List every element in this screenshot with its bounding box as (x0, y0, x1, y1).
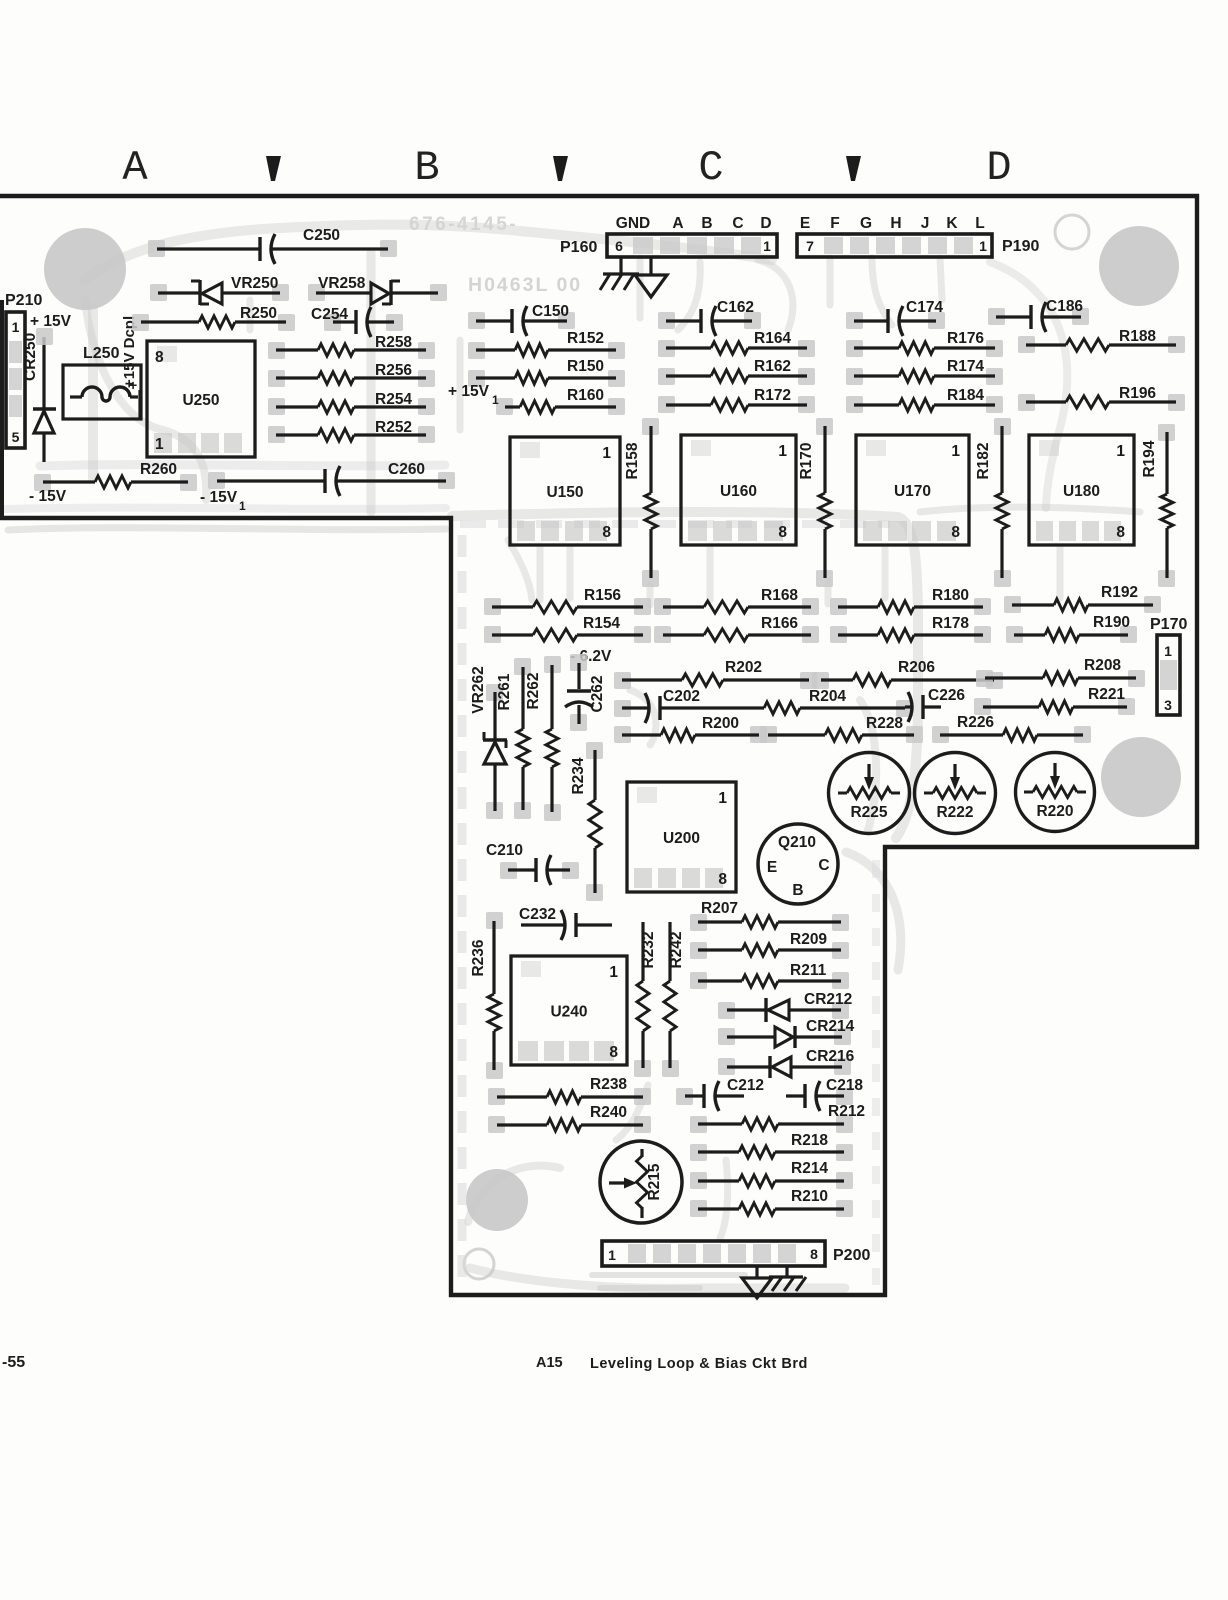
svg-text:5: 5 (12, 429, 20, 445)
gray pad circle bottom-left of tongue (466, 1169, 528, 1231)
svg-text:R174: R174 (947, 358, 984, 375)
svg-text:Q210: Q210 (778, 834, 816, 851)
svg-text:R172: R172 (754, 387, 791, 404)
svg-text:R200: R200 (702, 715, 739, 732)
resistor R156 (484, 587, 651, 615)
IC U240 (511, 956, 627, 1065)
svg-text:R256: R256 (375, 362, 412, 379)
resistor R234 (570, 742, 603, 901)
diode CR214 (718, 1018, 855, 1048)
svg-text:- 15V: - 15V (200, 489, 238, 506)
capacitor C162 (658, 299, 761, 336)
svg-text:R221: R221 (1088, 686, 1125, 703)
resistor R202 (614, 659, 817, 689)
svg-text:R192: R192 (1101, 584, 1138, 601)
capacitor C262 (565, 654, 606, 731)
capacitor C260 (208, 461, 455, 496)
svg-text:L: L (975, 215, 984, 232)
svg-text:Leveling Loop & Bias Ckt Brd: Leveling Loop & Bias Ckt Brd (590, 1356, 808, 1372)
capacitor C186 (988, 298, 1089, 332)
resistor R174 (846, 358, 1003, 385)
svg-text:R180: R180 (932, 587, 969, 604)
connector P170 (1150, 616, 1187, 715)
svg-text:R150: R150 (567, 358, 604, 375)
svg-text:R154: R154 (583, 615, 620, 632)
connector P210 (5, 292, 42, 448)
IC U180 (1029, 435, 1134, 545)
svg-text:8: 8 (810, 1246, 818, 1262)
svg-text:U150: U150 (546, 484, 583, 501)
capacitor C254 (311, 306, 403, 337)
chassis ground at P160 (600, 257, 639, 290)
resistor R260 (34, 461, 197, 491)
resistor R221 (974, 686, 1135, 715)
resistor R211 (690, 962, 849, 989)
resistor R258 (268, 334, 435, 359)
svg-text:1: 1 (778, 443, 787, 460)
IC U200 (627, 782, 736, 892)
svg-text:P210: P210 (5, 292, 42, 309)
svg-text:R162: R162 (754, 358, 791, 375)
resistor R192 (1004, 584, 1161, 613)
resistor R207 (690, 900, 849, 931)
svg-text:R207: R207 (701, 900, 738, 917)
resistor R210 (690, 1188, 853, 1217)
svg-text:R242: R242 (668, 931, 685, 968)
svg-text:8: 8 (602, 524, 611, 541)
resistor R236 (470, 912, 503, 1079)
svg-text:C250: C250 (303, 227, 340, 244)
resistor R204 (742, 688, 913, 717)
resistor R160 (496, 387, 625, 415)
texture band tongue right edge (872, 860, 880, 1285)
svg-text:R158: R158 (624, 442, 641, 479)
resistor R262 (525, 656, 561, 821)
svg-text:CR216: CR216 (806, 1048, 855, 1065)
svg-text:A15: A15 (536, 1355, 563, 1371)
svg-text:R215: R215 (646, 1163, 663, 1200)
svg-text:C212: C212 (727, 1077, 764, 1094)
svg-text:R211: R211 (790, 962, 827, 979)
svg-text:R220: R220 (1036, 803, 1073, 820)
texture band tongue left edge (458, 535, 467, 1285)
svg-text:+ 15V: + 15V (30, 313, 72, 330)
connector P160 (560, 234, 777, 257)
svg-text:R228: R228 (866, 715, 903, 732)
svg-text:R178: R178 (932, 615, 969, 632)
svg-text:U180: U180 (1063, 483, 1100, 500)
resistor R152 (468, 330, 625, 359)
svg-text:B: B (701, 215, 712, 232)
svg-text:R194: R194 (1141, 440, 1158, 477)
resistor R170 (798, 418, 833, 587)
potentiometer R215 (600, 1141, 682, 1223)
svg-text:R218: R218 (791, 1132, 828, 1149)
IC U170 (856, 435, 969, 545)
svg-text:1: 1 (239, 499, 246, 513)
svg-text:L250: L250 (83, 345, 120, 362)
svg-text:R254: R254 (375, 391, 412, 408)
svg-text:D: D (760, 215, 771, 232)
svg-text:R196: R196 (1119, 385, 1156, 402)
svg-text:R225: R225 (850, 804, 887, 821)
capacitor C250 (148, 227, 397, 264)
capacitor C232 (519, 906, 612, 940)
gray pad circle mid-right (1101, 737, 1181, 817)
connector P190 (797, 234, 1039, 257)
resistor R166 (654, 615, 819, 643)
svg-text:1: 1 (718, 790, 727, 807)
svg-text:3: 3 (1164, 697, 1172, 713)
svg-text:R184: R184 (947, 387, 984, 404)
svg-text:R222: R222 (936, 804, 973, 821)
svg-text:1: 1 (602, 445, 611, 462)
svg-text:R152: R152 (567, 330, 604, 347)
resistor R184 (846, 387, 1003, 413)
resistor R252 (268, 419, 435, 443)
diode CR212 (718, 991, 852, 1022)
svg-text:C: C (818, 857, 829, 874)
svg-text:1: 1 (492, 393, 499, 407)
chassis ground at P200 (769, 1266, 806, 1291)
svg-text:-55: -55 (2, 1354, 25, 1371)
capacitor C226 (905, 687, 965, 722)
svg-text:C174: C174 (906, 299, 943, 316)
svg-text:CR214: CR214 (806, 1018, 855, 1035)
svg-text:1: 1 (1116, 443, 1125, 460)
svg-text:C262: C262 (589, 675, 606, 712)
svg-text:F: F (830, 215, 839, 232)
svg-text:1: 1 (1164, 643, 1172, 659)
resistor R226 (932, 714, 1091, 743)
svg-text:R190: R190 (1093, 614, 1130, 631)
svg-text:R261: R261 (496, 673, 513, 710)
svg-text:R234: R234 (570, 757, 587, 794)
svg-text:1: 1 (608, 1247, 616, 1263)
svg-text:- 15V: - 15V (29, 488, 67, 505)
capacitor C210 (486, 842, 579, 885)
diode CR216 (718, 1048, 855, 1078)
texture band top edge of notch (460, 520, 890, 528)
resistor R250 (132, 305, 295, 331)
resistor R178 (830, 615, 991, 643)
pcb trace artwork (85, 225, 772, 280)
svg-text:R252: R252 (375, 419, 412, 436)
resistor R168 (654, 587, 819, 615)
svg-text:B: B (414, 144, 439, 192)
svg-text:R160: R160 (567, 387, 604, 404)
board left edge (0, 300, 4, 518)
IC U250 (147, 341, 255, 457)
IC U160 (681, 435, 796, 545)
svg-text:C226: C226 (928, 687, 965, 704)
svg-text:8: 8 (155, 349, 164, 366)
resistor R162 (658, 358, 815, 385)
svg-text:CR212: CR212 (804, 991, 852, 1008)
index triangle 1 (266, 156, 281, 181)
svg-text:C254: C254 (311, 306, 348, 323)
resistor R172 (658, 387, 815, 413)
svg-text:E: E (800, 215, 810, 232)
svg-text:VR262: VR262 (470, 666, 487, 713)
resistor R232 (634, 922, 657, 1077)
svg-text:C260: C260 (388, 461, 425, 478)
resistor R188 (1018, 328, 1185, 353)
inductor L250 (63, 345, 141, 420)
capacitor C202 (614, 688, 742, 723)
svg-text:H0463L 00: H0463L 00 (468, 274, 582, 296)
resistor R242 (662, 922, 685, 1077)
zener VR250 (150, 275, 289, 305)
svg-text:6: 6 (615, 238, 623, 254)
svg-text:R214: R214 (791, 1160, 828, 1177)
svg-text:A: A (672, 215, 683, 232)
svg-text:1: 1 (12, 319, 20, 335)
resistor R150 (468, 358, 625, 387)
resistor R182 (975, 418, 1011, 587)
svg-text:C162: C162 (717, 299, 754, 316)
svg-text:R258: R258 (375, 334, 412, 351)
svg-text:R240: R240 (590, 1104, 627, 1121)
svg-text:R202: R202 (725, 659, 762, 676)
svg-text:R170: R170 (798, 442, 815, 479)
resistor R196 (1018, 385, 1185, 411)
board outline (0, 196, 1197, 1295)
svg-text:R250: R250 (240, 305, 277, 322)
transistor Q210 (758, 824, 838, 904)
index triangle 2 (553, 156, 568, 181)
resistor R154 (484, 615, 651, 643)
gray pad circle top-right (1099, 226, 1179, 306)
resistor R218 (690, 1132, 853, 1161)
connector P200 (602, 1241, 870, 1266)
resistor R176 (846, 330, 1003, 357)
resistor R238 (488, 1076, 651, 1105)
svg-text:R156: R156 (584, 587, 621, 604)
svg-text:R226: R226 (957, 714, 994, 731)
IC U150 (510, 437, 620, 545)
svg-text:P170: P170 (1150, 616, 1187, 633)
resistor R164 (658, 330, 815, 357)
resistor R214 (690, 1160, 853, 1189)
diode CR250 (22, 328, 56, 462)
svg-text:C210: C210 (486, 842, 523, 859)
svg-text:P160: P160 (560, 239, 597, 256)
resistor R261 (496, 658, 531, 819)
svg-text:1: 1 (763, 238, 771, 254)
resistor R194 (1141, 424, 1175, 587)
resistor R254 (268, 391, 435, 415)
white ring top-right (1055, 215, 1089, 249)
potentiometer R222 (915, 753, 996, 834)
resistor R206 (812, 659, 1003, 689)
svg-text:8: 8 (718, 871, 727, 888)
svg-text:VR258: VR258 (318, 275, 366, 292)
resistor R180 (830, 587, 991, 615)
svg-text:A: A (122, 144, 148, 192)
resistor R212 (690, 1103, 865, 1133)
svg-text:R260: R260 (140, 461, 177, 478)
svg-text:R166: R166 (761, 615, 798, 632)
svg-text:U170: U170 (894, 483, 931, 500)
potentiometer R220 (1016, 753, 1095, 832)
earth ground triangle at P160 (635, 257, 667, 297)
resistor R209 (690, 931, 849, 959)
resistor R158 (624, 418, 659, 587)
capacitor C218 (786, 1077, 863, 1111)
svg-text:8: 8 (609, 1044, 618, 1061)
svg-text:R208: R208 (1084, 657, 1121, 674)
svg-text:U240: U240 (550, 1004, 587, 1021)
white ring bottom-left (464, 1249, 494, 1279)
svg-text:C: C (698, 144, 723, 192)
svg-text:U250: U250 (182, 392, 219, 409)
svg-text:B: B (792, 882, 803, 899)
svg-text:R209: R209 (790, 931, 827, 948)
svg-text:C218: C218 (826, 1077, 863, 1094)
resistor R240 (488, 1104, 651, 1133)
svg-text:R204: R204 (809, 688, 846, 705)
svg-text:8: 8 (778, 524, 787, 541)
svg-text:H: H (890, 215, 901, 232)
capacitor C212 (676, 1077, 764, 1111)
svg-text:R176: R176 (947, 330, 984, 347)
svg-text:1: 1 (609, 964, 618, 981)
svg-text:P200: P200 (833, 1247, 870, 1264)
svg-text:C202: C202 (663, 688, 700, 705)
resistor R190 (1006, 614, 1137, 643)
resistor R256 (268, 362, 435, 387)
svg-text:D: D (986, 144, 1011, 192)
resistor R228 (760, 715, 923, 743)
resistor R208 (976, 657, 1145, 687)
svg-text:R168: R168 (761, 587, 798, 604)
svg-text:P190: P190 (1002, 238, 1039, 255)
svg-text:VR250: VR250 (231, 275, 278, 292)
svg-text:E: E (767, 859, 777, 876)
earth ground triangle at P200 (742, 1266, 772, 1298)
svg-text:R262: R262 (525, 672, 542, 709)
zener VR262 (470, 666, 507, 819)
svg-text:J: J (921, 215, 930, 232)
svg-text:1: 1 (979, 238, 987, 254)
svg-text:G: G (860, 215, 872, 232)
svg-text:R206: R206 (898, 659, 935, 676)
svg-text:1: 1 (155, 436, 164, 453)
svg-text:C150: C150 (532, 303, 569, 320)
svg-text:U160: U160 (720, 483, 757, 500)
svg-text:R164: R164 (754, 330, 791, 347)
potentiometer R225 (829, 753, 910, 834)
zener VR258 (308, 275, 447, 305)
svg-text:8: 8 (1116, 524, 1125, 541)
svg-text:C: C (732, 215, 743, 232)
capacitor C150 (468, 303, 575, 336)
svg-text:+ 15V: + 15V (448, 383, 490, 400)
gray pad circle top-left (44, 228, 126, 310)
svg-text:1: 1 (951, 443, 960, 460)
svg-text:C232: C232 (519, 906, 556, 923)
svg-text:K: K (946, 215, 958, 232)
svg-text:R188: R188 (1119, 328, 1156, 345)
svg-text:7: 7 (806, 238, 814, 254)
svg-text:676-4145-: 676-4145- (409, 214, 518, 235)
svg-text:U200: U200 (663, 830, 700, 847)
svg-text:C186: C186 (1046, 298, 1083, 315)
svg-text:R232: R232 (640, 931, 657, 968)
resistor R200 (614, 715, 767, 743)
svg-text:R210: R210 (791, 1188, 828, 1205)
svg-text:GND: GND (616, 215, 650, 232)
svg-text:R212: R212 (828, 1103, 865, 1120)
svg-text:R182: R182 (975, 442, 992, 479)
index triangle 3 (846, 156, 861, 181)
capacitor C174 (846, 299, 945, 336)
svg-text:R238: R238 (590, 1076, 627, 1093)
svg-text:8: 8 (951, 524, 960, 541)
svg-text:R236: R236 (470, 939, 487, 976)
